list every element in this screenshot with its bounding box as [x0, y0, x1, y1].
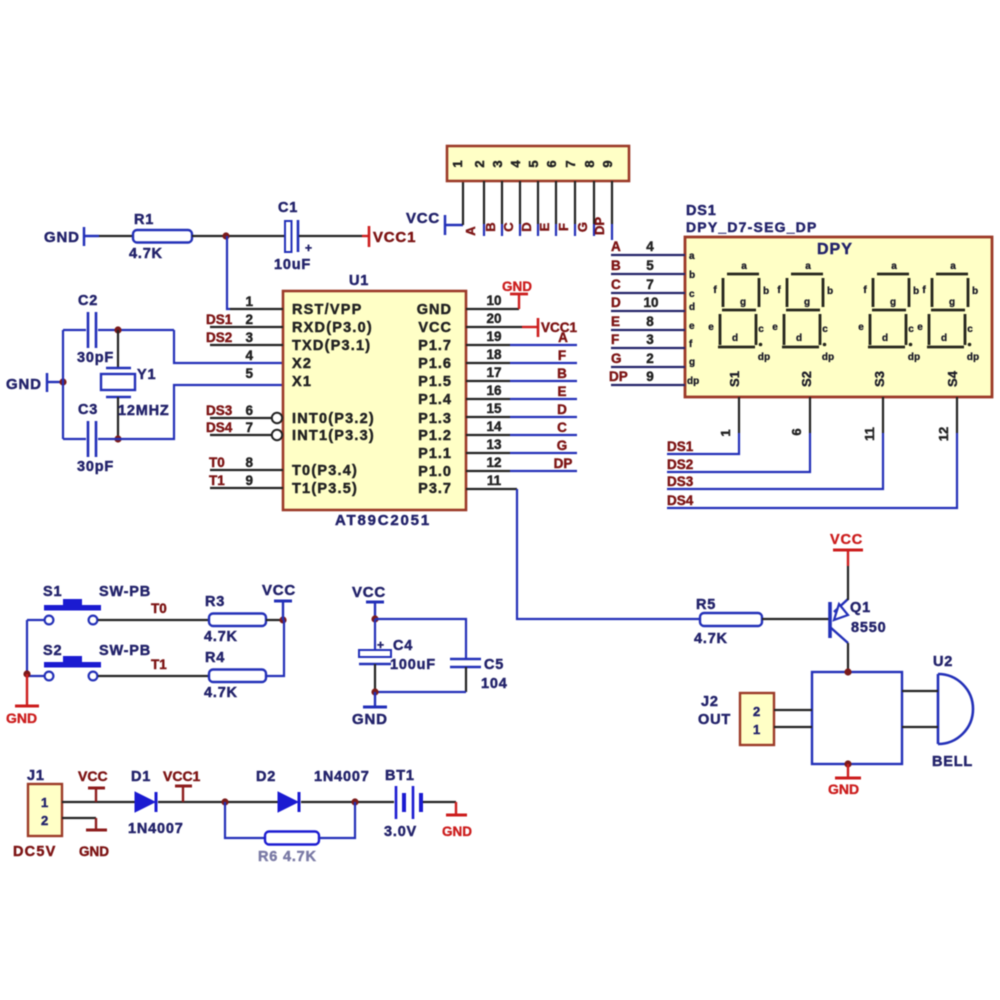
svg-text:G: G: [575, 222, 590, 232]
node R3/R4/VCC: [279, 616, 286, 623]
net labels DS1-DS4, T0, T1 on U1 left pins: [206, 312, 233, 488]
svg-text:a: a: [689, 251, 695, 262]
capacitor C4 (100uF electrolytic): [359, 619, 436, 692]
diode D1 1N4007: [128, 769, 184, 837]
7-seg digit 2: [772, 261, 834, 363]
svg-text:1N4007: 1N4007: [128, 821, 184, 837]
svg-text:GND: GND: [442, 824, 472, 839]
svg-text:RST/VPP: RST/VPP: [292, 302, 362, 318]
svg-text:2: 2: [472, 160, 487, 167]
svg-text:1: 1: [753, 722, 760, 737]
svg-text:1: 1: [718, 429, 733, 436]
wire J2 pin2 to loop: [774, 709, 812, 711]
svg-text:b: b: [689, 270, 695, 281]
wire C2 to right rail: [98, 329, 174, 331]
display internal pin letters a-dp: [687, 251, 699, 387]
svg-text:6: 6: [245, 403, 253, 418]
svg-text:DS2: DS2: [206, 330, 232, 345]
segment net labels on U1 right pins: [554, 330, 573, 471]
wire J1 pin2 to GND: [62, 817, 96, 819]
svg-text:14: 14: [486, 419, 502, 434]
wire junction down to U1 pin1: [227, 236, 230, 309]
svg-text:VCC: VCC: [352, 584, 386, 601]
ground port GND (input): [79, 818, 109, 859]
svg-text:R1: R1: [134, 212, 154, 228]
wire S2 to R4: [98, 675, 209, 677]
svg-text:TXD(P3.1): TXD(P3.1): [292, 338, 371, 354]
node crystal bottom: [114, 435, 121, 442]
wire loop to bell top: [902, 690, 938, 692]
display body: [685, 237, 992, 397]
svg-text:U2: U2: [933, 654, 953, 670]
svg-text:T0: T0: [151, 601, 167, 616]
wire GND to R1: [99, 235, 133, 237]
U1 right pin numbers: [486, 293, 502, 488]
svg-text:VCC: VCC: [830, 532, 863, 548]
U1 left pin wires: [210, 309, 283, 488]
svg-text:30pF: 30pF: [77, 459, 114, 475]
svg-text:12: 12: [936, 427, 951, 441]
svg-text:P3.7: P3.7: [418, 481, 452, 497]
svg-text:DP: DP: [609, 369, 628, 384]
wire DS3 digit stub: [667, 433, 883, 489]
svg-text:3.0V: 3.0V: [384, 824, 417, 840]
svg-text:T1: T1: [209, 473, 225, 488]
svg-text:VCC: VCC: [406, 210, 440, 227]
svg-text:10uF: 10uF: [274, 257, 311, 273]
svg-text:16: 16: [486, 383, 502, 398]
IC U1 body: [283, 291, 466, 510]
svg-text:AT89C2051: AT89C2051: [335, 512, 431, 529]
svg-text:30pF: 30pF: [77, 350, 114, 366]
ground port GND (decoupling): [352, 692, 388, 728]
svg-text:DS4: DS4: [667, 493, 694, 508]
svg-text:d: d: [689, 302, 695, 313]
svg-text:X2: X2: [292, 356, 312, 372]
svg-text:1: 1: [450, 160, 465, 167]
wire C1 to VCC1: [299, 235, 362, 237]
svg-text:E: E: [611, 314, 620, 329]
svg-text:4: 4: [646, 239, 654, 254]
svg-text:DS4: DS4: [206, 420, 233, 435]
svg-text:1: 1: [245, 294, 253, 309]
svg-text:3: 3: [245, 330, 253, 345]
svg-text:OUT: OUT: [698, 712, 731, 728]
svg-text:RXD(P3.0): RXD(P3.0): [292, 320, 373, 336]
resistor R6: [258, 832, 319, 866]
capacitor C2 (30pF): [63, 293, 114, 366]
svg-text:T0: T0: [209, 455, 225, 470]
svg-text:12MHZ: 12MHZ: [118, 403, 170, 419]
svg-text:P1.7: P1.7: [418, 338, 452, 354]
svg-text:12: 12: [486, 455, 501, 470]
svg-text:GND: GND: [44, 229, 80, 246]
svg-text:2: 2: [245, 312, 253, 327]
svg-text:P1.1: P1.1: [418, 446, 452, 462]
svg-text:C: C: [557, 420, 567, 435]
wire J1 pin1 to D1: [62, 801, 135, 803]
capacitor C3 (30pF): [63, 402, 114, 475]
svg-text:C: C: [611, 277, 621, 292]
wire DS4 digit stub: [667, 433, 957, 508]
buzzer U2 BELL: [932, 654, 973, 770]
U1 right net wires (blue): [510, 345, 577, 471]
node crystal-gnd rail: [59, 378, 66, 385]
svg-text:R4: R4: [205, 650, 225, 666]
wire decoupling loop bottom: [375, 691, 466, 693]
connector pin numbers 1-9 (rotated): [450, 160, 615, 168]
wire DS2 digit stub: [667, 433, 810, 472]
capacitor C5 (104): [450, 657, 508, 692]
svg-text:S2: S2: [43, 643, 62, 659]
wire decoupling loop top/right: [375, 619, 466, 659]
svg-text:4.7K: 4.7K: [204, 685, 238, 701]
svg-text:B: B: [483, 222, 498, 231]
wire bell loop: [812, 672, 902, 764]
ground port (U1 pin 10): [502, 279, 532, 309]
connector pin wires 2-9: [484, 181, 612, 224]
resistor R5: [694, 597, 762, 647]
wire battery to GND: [423, 801, 456, 803]
svg-text:8: 8: [646, 314, 654, 329]
svg-text:11: 11: [862, 427, 877, 441]
svg-text:E: E: [537, 222, 552, 231]
svg-text:2: 2: [753, 704, 760, 719]
node collector/loop: [844, 668, 851, 675]
svg-text:R6 4.7K: R6 4.7K: [258, 849, 317, 865]
svg-text:1N4007: 1N4007: [314, 769, 370, 785]
wire DS1 digit stub: [667, 433, 739, 454]
svg-text:P1.0: P1.0: [418, 464, 452, 480]
svg-text:G: G: [611, 351, 622, 366]
svg-text:A: A: [463, 226, 478, 236]
switch S2: [44, 656, 101, 680]
wire D2 to battery: [301, 801, 394, 803]
svg-text:D: D: [557, 402, 567, 417]
svg-text:F: F: [556, 223, 571, 231]
wire R6 bypass loop: [225, 802, 265, 838]
svg-text:DS1: DS1: [206, 312, 233, 327]
svg-text:S1: S1: [727, 371, 742, 387]
digit pin numbers (rotated): [718, 427, 951, 441]
svg-text:DC5V: DC5V: [13, 844, 56, 860]
power port VCC (switch pullups): [262, 582, 296, 620]
connector body (9-pin header): [447, 146, 629, 181]
svg-text:20: 20: [486, 311, 501, 326]
ground port GND (bell loop): [828, 764, 861, 797]
svg-text:GND: GND: [6, 376, 42, 393]
svg-text:2: 2: [646, 351, 654, 366]
ground port GND (battery): [442, 802, 472, 839]
ground port GND (switches): [6, 674, 39, 726]
svg-text:D1: D1: [131, 769, 151, 785]
node crystal top: [114, 326, 121, 333]
svg-text:DS2: DS2: [667, 457, 693, 472]
wire S1 to R3: [98, 619, 209, 621]
svg-text:F: F: [611, 332, 619, 347]
U1 internal pin names (right column): [417, 302, 452, 497]
U1 pin 7 inversion bubble: [272, 430, 282, 440]
svg-text:dp: dp: [687, 376, 699, 387]
U1 right pin wires: [466, 309, 522, 489]
svg-text:5: 5: [245, 366, 253, 381]
U1 left pin numbers: [245, 294, 253, 488]
svg-text:VCC: VCC: [78, 768, 108, 784]
resistor R1: [129, 212, 192, 262]
svg-text:T1(P3.5): T1(P3.5): [292, 481, 358, 497]
svg-text:S1: S1: [43, 584, 62, 600]
wire VCC to Q1 emitter: [847, 566, 849, 600]
svg-text:DS1: DS1: [686, 203, 717, 219]
svg-text:GND: GND: [417, 302, 452, 318]
svg-text:P1.5: P1.5: [418, 374, 452, 390]
svg-text:VCC: VCC: [418, 320, 452, 336]
wire loop to bell bottom: [902, 726, 938, 728]
display left pin wires a-dp: [611, 255, 685, 385]
svg-text:D2: D2: [256, 769, 276, 785]
wire R3 to VCC node: [266, 619, 284, 621]
power port VCC1 (U1 pin 20): [522, 318, 578, 337]
svg-text:GND: GND: [6, 710, 37, 726]
svg-text:Y1: Y1: [137, 367, 156, 383]
svg-text:10: 10: [643, 295, 658, 310]
svg-text:GND: GND: [352, 711, 388, 728]
svg-text:R3: R3: [205, 594, 225, 610]
svg-text:C5: C5: [484, 657, 504, 673]
connector J1 body: [28, 784, 62, 836]
power port VCC1 (after C1): [362, 226, 416, 247]
wire R4 up to VCC node: [266, 620, 284, 676]
7-seg digit 1: [708, 261, 770, 363]
svg-text:4.7K: 4.7K: [694, 631, 728, 647]
svg-text:P1.3: P1.3: [418, 411, 452, 427]
svg-text:4: 4: [508, 160, 523, 168]
ground port GND (left of R1): [44, 227, 99, 246]
svg-text:INT1(P3.3): INT1(P3.3): [292, 428, 375, 444]
svg-text:BELL: BELL: [932, 754, 973, 770]
svg-text:U1: U1: [349, 273, 369, 289]
battery BT1: [384, 768, 421, 840]
svg-text:DS3: DS3: [206, 403, 233, 418]
svg-text:P1.6: P1.6: [418, 356, 452, 372]
diode D2 1N4007: [256, 769, 370, 812]
svg-text:T1: T1: [151, 657, 167, 672]
wire J2 pin1 to loop: [774, 726, 812, 728]
resistor R4: [204, 650, 266, 701]
svg-text:17: 17: [486, 365, 501, 380]
wire S1 left to rail: [27, 619, 44, 621]
svg-text:C3: C3: [78, 402, 98, 418]
svg-text:4: 4: [245, 348, 253, 363]
svg-text:S4: S4: [945, 370, 960, 387]
svg-text:A: A: [611, 239, 621, 254]
resistor R3: [204, 594, 266, 645]
wire Q1 collector down: [847, 643, 849, 672]
7-seg digit 3: [858, 261, 920, 363]
svg-text:B: B: [557, 366, 567, 381]
svg-text:1: 1: [41, 795, 48, 810]
svg-text:X1: X1: [292, 374, 312, 390]
node D2/R6 left: [221, 798, 228, 805]
wire R5 to Q1 base: [762, 618, 830, 620]
svg-text:DP: DP: [554, 456, 573, 471]
svg-text:P1.4: P1.4: [418, 392, 452, 408]
svg-text:4.7K: 4.7K: [204, 629, 238, 645]
svg-text:C1: C1: [278, 200, 298, 216]
svg-text:VCC1: VCC1: [373, 229, 416, 246]
wire R1 to C1: [192, 235, 285, 237]
svg-text:9: 9: [600, 160, 615, 167]
svg-text:18: 18: [486, 347, 502, 362]
svg-text:BT1: BT1: [385, 768, 415, 784]
svg-text:3: 3: [490, 160, 505, 167]
net labels DS1-DS4: [667, 439, 694, 508]
node rail/S2: [23, 670, 30, 677]
svg-text:7: 7: [563, 160, 578, 167]
svg-text:8550: 8550: [851, 620, 886, 636]
svg-text:D: D: [611, 295, 621, 310]
junction node (R1/C1/pin1): [222, 232, 229, 239]
node loop/ground: [844, 760, 851, 767]
7-seg digit 4: [917, 261, 979, 363]
svg-text:DS1: DS1: [667, 439, 694, 454]
svg-text:SW-PB: SW-PB: [99, 584, 151, 600]
svg-text:5: 5: [646, 258, 654, 273]
connector pin wire blue tails: [484, 224, 612, 240]
svg-text:C4: C4: [393, 638, 413, 654]
wire VCC up to connector pin 1: [462, 181, 464, 225]
wire D1 to D2: [158, 801, 278, 803]
svg-text:G: G: [557, 438, 568, 453]
svg-text:2: 2: [41, 813, 48, 828]
svg-text:VCC1: VCC1: [541, 320, 578, 335]
power port VCC (input): [78, 768, 108, 802]
svg-text:Q1: Q1: [850, 600, 871, 616]
svg-text:DP: DP: [592, 217, 607, 235]
svg-text:INT0(P3.2): INT0(P3.2): [292, 411, 375, 427]
svg-text:10: 10: [486, 293, 501, 308]
svg-text:GND: GND: [828, 781, 859, 797]
svg-text:8: 8: [245, 455, 253, 470]
net labels a-dp under connector (rotated): [463, 217, 607, 236]
ground port GND (crystal): [6, 373, 63, 393]
svg-text:19: 19: [486, 329, 501, 344]
svg-text:F: F: [558, 348, 566, 363]
svg-text:S3: S3: [872, 371, 887, 387]
svg-text:13: 13: [486, 437, 502, 452]
digit select pin labels S1-S4 (rotated): [727, 370, 960, 387]
node D2/R6 right: [351, 798, 358, 805]
svg-text:VCC1: VCC1: [163, 768, 201, 784]
svg-text:P1.2: P1.2: [418, 428, 452, 444]
svg-text:7: 7: [245, 420, 253, 435]
svg-text:7: 7: [646, 277, 654, 292]
power port VCC (above Q1): [830, 532, 863, 566]
switch S1: [44, 599, 101, 624]
wire P3.7 (pin 11) long run to R5: [517, 489, 700, 619]
connector J2 body: [740, 693, 774, 745]
svg-text:S2: S2: [799, 371, 814, 387]
transistor Q1 8550 (PNP): [830, 599, 886, 643]
display digit pin wires (below): [739, 397, 957, 433]
svg-text:e: e: [689, 321, 695, 332]
svg-text:104: 104: [481, 676, 508, 692]
wire C3 to right rail, up to X1: [98, 385, 283, 439]
wire S2 left to rail: [27, 675, 44, 677]
svg-text:C2: C2: [78, 293, 98, 309]
capacitor C1 (10uF electrolytic): [274, 200, 312, 273]
node C4/GND: [371, 688, 378, 695]
svg-text:SW-PB: SW-PB: [99, 643, 151, 659]
svg-text:9: 9: [646, 369, 654, 384]
svg-text:DPY_D7-SEG_DP: DPY_D7-SEG_DP: [686, 219, 818, 235]
svg-text:3: 3: [646, 332, 654, 347]
power port VCC (decoupling): [352, 584, 386, 619]
display pin numbers 4,5,7,10,8,3,2,9: [643, 239, 658, 384]
wire left rail: [62, 330, 64, 439]
svg-text:15: 15: [486, 401, 502, 416]
svg-text:c: c: [689, 289, 695, 300]
crystal Y1 12MHZ: [101, 330, 170, 439]
svg-text:GND: GND: [502, 279, 532, 294]
svg-text:9: 9: [245, 473, 253, 488]
svg-text:DPY: DPY: [817, 241, 853, 258]
svg-text:B: B: [611, 258, 621, 273]
U1 pin 6 inversion bubble: [272, 413, 282, 423]
svg-text:R5: R5: [696, 597, 716, 613]
svg-text:11: 11: [487, 473, 502, 488]
svg-text:4.7K: 4.7K: [129, 246, 163, 262]
power port VCC1 (after D1): [163, 768, 201, 802]
svg-text:T0(P3.4): T0(P3.4): [292, 463, 358, 479]
svg-text:E: E: [557, 384, 566, 399]
svg-text:100uF: 100uF: [390, 657, 436, 673]
svg-text:g: g: [689, 357, 695, 368]
svg-text:GND: GND: [79, 844, 109, 859]
svg-text:J2: J2: [701, 694, 719, 710]
wire R6 to node: [319, 802, 355, 838]
svg-text:8: 8: [582, 160, 597, 167]
svg-text:DS3: DS3: [667, 474, 694, 489]
svg-text:6: 6: [789, 428, 804, 435]
svg-text:VCC: VCC: [262, 582, 296, 599]
display segment net labels A-DP: [609, 239, 628, 384]
node VCC/C4: [371, 615, 378, 622]
U1 internal pin names (left column): [292, 302, 375, 497]
svg-text:D: D: [519, 222, 534, 231]
svg-text:J1: J1: [27, 768, 45, 784]
wire crystal top to X2: [174, 330, 283, 363]
svg-text:6: 6: [544, 160, 559, 167]
wire left rail down: [26, 620, 28, 673]
svg-text:C: C: [501, 222, 516, 232]
power port VCC (feeds connector pin 1): [406, 210, 463, 235]
svg-text:+: +: [305, 241, 312, 255]
svg-text:5: 5: [526, 160, 541, 167]
